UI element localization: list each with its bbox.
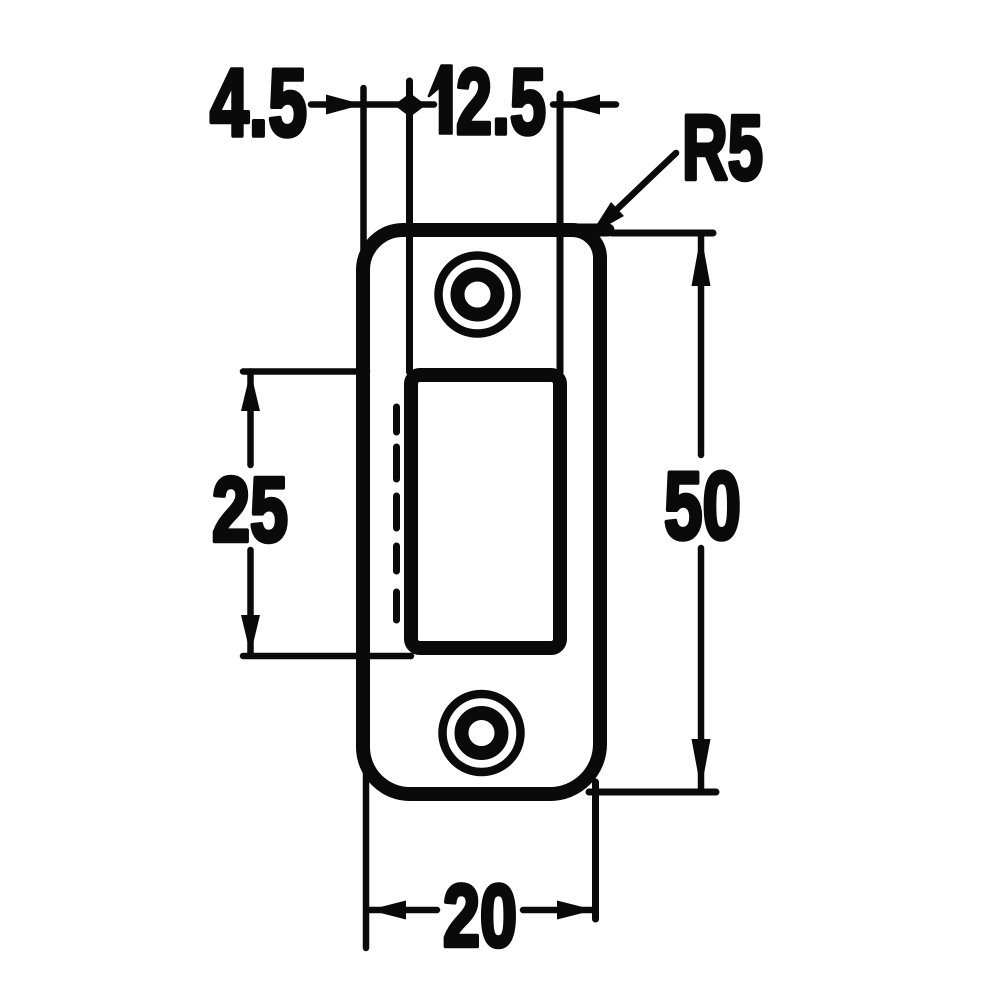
- svg-text:4.5: 4.5: [210, 50, 307, 157]
- plate top edge overshoot: [500, 224, 608, 237]
- svg-text:R5: R5: [682, 97, 763, 199]
- arrowhead diamond at B: [394, 93, 426, 117]
- screw hole top ring: [458, 275, 498, 315]
- screw hole bottom ring: [462, 713, 502, 753]
- svg-text:50: 50: [664, 453, 741, 560]
- screw hole bottom outer: [443, 694, 521, 772]
- arrowhead 25 down: [241, 615, 260, 655]
- extension line C cutout right: [557, 94, 564, 372]
- hidden dashed line dash 5: [393, 592, 400, 620]
- dim line 12.5 right part: [553, 101, 616, 108]
- arrowhead 12.5 right: [562, 95, 600, 115]
- svg-text:20: 20: [443, 866, 517, 965]
- dim 50 line upper: [698, 236, 705, 455]
- svg-text:2.5: 2.5: [456, 50, 546, 154]
- plate outline: [363, 230, 600, 794]
- latch cutout: [411, 375, 560, 648]
- R5 leader line: [592, 153, 676, 233]
- dim 25 bottom extension: [243, 653, 411, 660]
- extension line B cutout left: [406, 81, 413, 372]
- arrowhead 20 left: [369, 901, 407, 920]
- hidden dashed line dash 4: [393, 546, 400, 571]
- hidden dashed line dash 2: [393, 447, 400, 479]
- screw hole top outer: [439, 256, 517, 334]
- dim 20 left extension: [363, 755, 370, 948]
- dim 25 top extension: [243, 368, 367, 375]
- arrowhead 25 up: [241, 372, 260, 412]
- arrowhead R5 leader: [590, 202, 624, 235]
- hidden dashed line dash 1: [393, 407, 400, 432]
- dim 20 right extension: [592, 782, 599, 919]
- hidden dashed line dash 3: [393, 496, 400, 528]
- svg-text:25: 25: [212, 459, 288, 561]
- dim 25 line upper: [247, 372, 254, 466]
- dim 50 line lower: [698, 548, 705, 789]
- arrowhead 50 down: [692, 739, 711, 790]
- arrowhead 50 up: [692, 234, 711, 286]
- dim 25 line lower: [247, 550, 254, 654]
- extension line A plate left: [360, 88, 367, 258]
- arrowhead 4.5 left: [326, 95, 363, 115]
- dim 50 bottom extension: [589, 789, 716, 796]
- dim 20 line right: [523, 907, 594, 914]
- dim line 4.5: [311, 101, 434, 108]
- arrowhead 20 right: [557, 901, 595, 920]
- dim 20 line left: [368, 907, 437, 914]
- dim 50 top extension: [612, 230, 713, 237]
- label 12.5 digit 1: [429, 66, 452, 134]
